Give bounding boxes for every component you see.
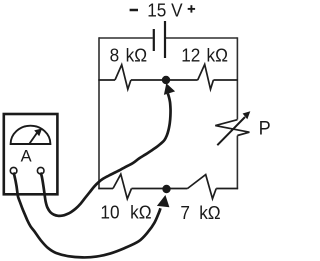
battery B1 short plate (negative) (153, 29, 155, 51)
wire top row middle (131, 79, 198, 81)
ammeter left terminal (10, 167, 17, 174)
node bottom junction dot (162, 185, 170, 193)
ammeter dial (11, 126, 51, 144)
resistor 7 kOhm (188, 175, 217, 199)
svg-text:7 kΩ: 7 kΩ (180, 202, 220, 223)
battery B1 plus sign (188, 5, 195, 12)
wire right edge lower (236, 136, 238, 190)
wire bottom row right (216, 188, 238, 190)
battery B1 minus sign (130, 9, 138, 12)
wire top edge left segment (99, 37, 153, 39)
arrowhead into top junction (164, 83, 175, 95)
svg-text:A: A (21, 146, 33, 165)
svg-text:10 kΩ: 10 kΩ (100, 202, 151, 223)
wire bottom row left (98, 188, 113, 190)
ammeter right terminal (37, 167, 44, 174)
svg-text:8 kΩ: 8 kΩ (110, 45, 147, 66)
wire top edge right segment (166, 37, 237, 39)
ammeter needle arrowhead (34, 128, 42, 136)
svg-text:15 V: 15 V (147, 0, 182, 21)
wire from ammeter left terminal to bottom junction (14, 173, 161, 258)
wire bottom row middle (132, 188, 188, 190)
wire from ammeter right terminal to top junction (41, 94, 171, 216)
node top junction dot (162, 76, 170, 84)
arrowhead into bottom junction (157, 195, 170, 207)
wire left edge (98, 37, 100, 189)
wire top row right (213, 79, 238, 81)
resistor 10 kOhm (113, 174, 132, 199)
potentiometer P arrow (217, 111, 250, 145)
potentiometer P zigzag (215, 120, 249, 136)
resistor 12 kOhm (198, 64, 214, 89)
ammeter needle (29, 132, 37, 144)
wire right edge upper (236, 37, 238, 119)
resistor 8 kOhm (115, 65, 131, 89)
battery B1 long plate (positive) (164, 21, 166, 58)
ammeter box (4, 114, 58, 194)
svg-text:P: P (259, 117, 271, 139)
svg-text:12 kΩ: 12 kΩ (181, 45, 228, 66)
wire top row left (98, 79, 115, 81)
